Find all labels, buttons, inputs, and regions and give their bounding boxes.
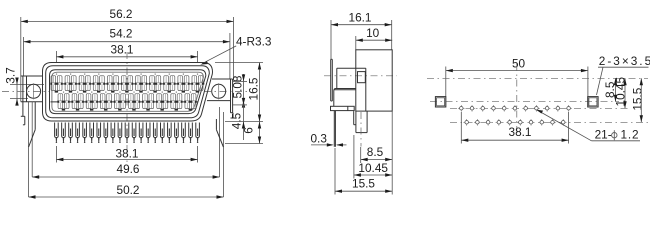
dimension 38.1 (footprint) [461, 112, 568, 144]
left mounting slot [435, 97, 445, 107]
dimension 49.6 [32, 162, 219, 179]
dimension 16.5 (rotated) [215, 63, 263, 122]
rear step [354, 111, 356, 125]
dimension 16.1 [331, 10, 392, 59]
top contact row (11 contacts) [50, 74, 203, 93]
hole row 2 (10 holes) [463, 119, 566, 126]
svg-text:16.5: 16.5 [247, 77, 261, 100]
svg-text:50: 50 [512, 57, 526, 71]
dimension 38.1 top [56, 42, 197, 62]
dimension 10 [356, 26, 392, 50]
shell outer outline [43, 63, 213, 122]
dimension 56.2 [21, 7, 234, 102]
svg-text:38.1: 38.1 [111, 42, 134, 56]
dimension 54.2 [24, 27, 230, 79]
dimension 50.2 [29, 183, 224, 199]
dimension 8.5 (middle view) [361, 145, 393, 163]
left bracket leg [21, 76, 35, 197]
svg-text:56.2: 56.2 [110, 7, 133, 21]
connector horizontal centerline through mounting holes [2, 91, 50, 93]
insulator recess step [52, 72, 204, 111]
svg-text:38.1: 38.1 [509, 125, 532, 139]
connector body (side profile) [334, 68, 366, 111]
footprint vertical centerline [516, 64, 518, 136]
board lock tab [356, 111, 367, 146]
dimension 10.45 (footprint, rotated) [613, 77, 627, 109]
right bracket leg [216, 107, 233, 197]
shell middle outline [46, 66, 210, 118]
right mounting slot [588, 97, 598, 107]
svg-text:10.45: 10.45 [358, 161, 388, 175]
flange hole notch [358, 72, 366, 83]
dimension 0.3 with leader [311, 132, 347, 147]
svg-text:3.7: 3.7 [4, 67, 18, 83]
bottom contact row (10 contacts) [57, 92, 196, 111]
dimension 15.5 (footprint, rotated) [630, 78, 644, 122]
footprint top datum centerline [427, 77, 648, 79]
dimension 38.1 bottom [56, 146, 197, 163]
side view mating axis centerline [324, 75, 397, 77]
connector vertical centerline [126, 52, 128, 162]
label 21-phi1.2 with leader [536, 110, 640, 142]
hole row 1 (11 holes) [458, 105, 572, 112]
front solder pin [334, 111, 335, 147]
svg-text:2-3×3.5: 2-3×3.5 [599, 54, 650, 68]
flange plate (side profile) [356, 50, 392, 111]
svg-text:15.5: 15.5 [352, 177, 375, 191]
svg-text:4-R3.3: 4-R3.3 [236, 35, 272, 49]
right screw hole [212, 83, 226, 99]
svg-text:49.6: 49.6 [117, 162, 140, 176]
bottom contact row line [51, 101, 198, 103]
svg-text:16.1: 16.1 [349, 10, 372, 24]
dimension 15.5 (middle view) [335, 111, 392, 194]
dimension 3.7 (left, rotated) [4, 67, 44, 105]
svg-text:4.5: 4.5 [230, 112, 244, 129]
svg-text:5.08: 5.08 [231, 75, 245, 98]
dimension 8.5 (footprint, rotated) [603, 78, 617, 101]
svg-text:38.1: 38.1 [116, 146, 139, 160]
footprint slot centerline [430, 101, 619, 103]
svg-text:0.3: 0.3 [311, 132, 328, 146]
solder pins comb (21 pins) [55, 123, 200, 143]
svg-text:50.2: 50.2 [117, 183, 140, 197]
label 2-3x3.5 with leader [597, 54, 650, 95]
body foot bar [331, 106, 355, 110]
svg-text:6: 6 [242, 127, 256, 134]
shell front lip [331, 59, 333, 101]
insulator face outline [50, 70, 206, 114]
svg-text:8.5: 8.5 [367, 145, 384, 159]
dimension 4.5 (rotated) [225, 98, 263, 140]
label 4-R3.3 with leader [200, 35, 272, 65]
dimension 5.08 (rotated) [231, 74, 247, 108]
dimension 50 [446, 57, 588, 108]
dimension 6 (rotated) [225, 122, 263, 144]
svg-text:10: 10 [366, 26, 380, 40]
top contact row line [51, 83, 205, 85]
left screw hole [27, 83, 41, 99]
footprint row2 centerline [450, 121, 648, 123]
left mounting ear [21, 76, 43, 102]
right mounting ear [207, 79, 233, 113]
dimension 10.45 (middle view) [354, 135, 392, 179]
svg-text:21-: 21- [595, 128, 612, 142]
svg-text:54.2: 54.2 [110, 27, 133, 41]
svg-text:1.2: 1.2 [621, 128, 640, 142]
svg-text:15.5: 15.5 [630, 87, 644, 110]
footprint row1 centerline [450, 107, 629, 109]
